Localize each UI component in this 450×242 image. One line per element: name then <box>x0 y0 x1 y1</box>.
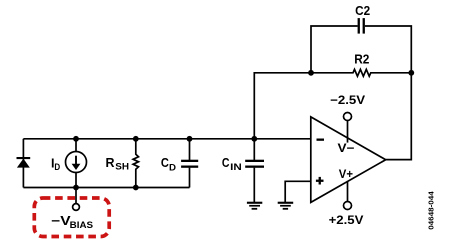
pin: V+ supply terminal <box>344 181 352 210</box>
wire: output drop from feedback network to op-amp output <box>386 73 412 160</box>
svg-text:SH: SH <box>115 162 129 173</box>
label minus input <box>317 139 325 141</box>
resistor R2 <box>311 69 411 76</box>
capacitor CIN <box>245 139 264 203</box>
wire: bias feed below current source <box>75 188 77 204</box>
capacitor CD <box>181 139 198 188</box>
junction node: CD top <box>187 136 193 142</box>
capacitor C2 <box>311 18 411 73</box>
ground (non-inverting input) <box>278 202 294 210</box>
svg-text:D: D <box>54 162 60 173</box>
junction node: ID top <box>73 136 79 142</box>
junction node: R2 left <box>308 70 314 76</box>
svg-text:D: D <box>169 162 176 173</box>
op-amp U1 <box>311 117 386 202</box>
svg-text:−2.5V: −2.5V <box>330 93 365 107</box>
svg-text:C: C <box>222 155 230 170</box>
svg-text:BIAS: BIAS <box>70 220 93 231</box>
svg-text:V−: V− <box>338 141 355 155</box>
highlight box (red dashed) around -VBIAS <box>34 198 109 237</box>
wire: main input rail (photodiode to op-amp inverting input) <box>23 138 310 140</box>
label CD <box>161 155 176 173</box>
terminal: -VBIAS open circle <box>73 204 80 211</box>
svg-text:IN: IN <box>230 162 242 173</box>
label ID <box>51 156 60 173</box>
ground (below CIN) <box>247 202 262 210</box>
wire: feedback riser from input node up to R2 branch <box>254 73 311 139</box>
svg-text:−V: −V <box>51 214 71 228</box>
resistor RSH <box>133 139 138 188</box>
label RSH <box>106 155 130 173</box>
wire: non-inverting input to ground <box>285 181 311 202</box>
photodiode D1 <box>17 157 31 168</box>
label CIN <box>222 155 242 173</box>
junction node: CIN / feedback tap <box>251 136 257 142</box>
svg-text:04648-044: 04648-044 <box>427 190 436 229</box>
label plus input <box>316 177 324 185</box>
current source ID <box>66 139 87 188</box>
pin: V- supply terminal <box>344 113 352 143</box>
junction node: RSH top <box>133 136 139 142</box>
svg-text:C2: C2 <box>355 3 370 18</box>
wire: left vertical branch (diode branch) <box>22 139 24 188</box>
label -VBIAS <box>51 214 93 231</box>
svg-text:R: R <box>106 155 116 170</box>
svg-text:V+: V+ <box>339 167 353 181</box>
svg-text:+2.5V: +2.5V <box>329 213 364 227</box>
junction node: R2 right / output <box>408 70 414 76</box>
junction node: RSH bottom <box>133 185 139 191</box>
junction node: ID bottom <box>73 185 79 191</box>
wire: bottom rail <box>23 187 189 189</box>
svg-text:R2: R2 <box>354 51 369 66</box>
